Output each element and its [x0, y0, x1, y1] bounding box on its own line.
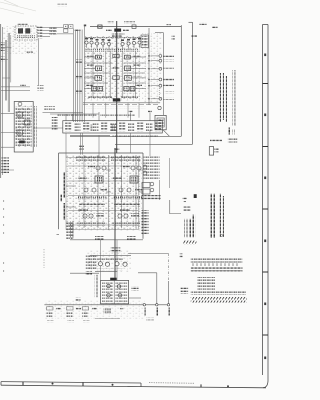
- protection innards right: [116, 282, 128, 303]
- wire run 5: [81, 30, 83, 123]
- transformer terminals: [17, 35, 35, 38]
- wire feedback horizontal 2: [115, 143, 193, 145]
- label above rail left: [108, 22, 114, 24]
- block2 top labels: [79, 146, 84, 150]
- parts list row 2: [191, 267, 243, 272]
- tiny circle mark: [221, 234, 223, 236]
- wire page-left vertical 2: [1, 27, 3, 175]
- wire from notes area down: [169, 158, 171, 188]
- band dark spots: [111, 125, 116, 132]
- hatch row under columns: [183, 241, 196, 245]
- legend box: [209, 147, 213, 156]
- wire lower band rail: [70, 134, 110, 136]
- wire mid connector: [33, 127, 63, 129]
- jack L: [64, 25, 68, 29]
- wire mid link down to rail: [138, 272, 157, 274]
- jack R: [69, 25, 73, 29]
- bias wire vertical: [148, 28, 150, 105]
- eq inner comp boxes: [17, 112, 23, 117]
- block2 inner border: [66, 158, 139, 230]
- label far top right: [212, 26, 218, 29]
- wire pair A: [8, 33, 10, 112]
- IC L4b: [98, 87, 103, 91]
- transistor row labels: [85, 37, 141, 39]
- wire top rail: [90, 25, 181, 27]
- texture right column: [142, 33, 162, 103]
- wire bottom rail of block2: [70, 239, 143, 241]
- block2 outline: [59, 153, 143, 239]
- lower left cluster: [2, 158, 10, 174]
- label above rail right: [124, 21, 135, 23]
- fuse on rail: [98, 25, 102, 29]
- bottom strip ticks: [23, 382, 201, 388]
- texture block1: [85, 36, 140, 101]
- wire lower left: [1, 169, 14, 171]
- output transistor labels: [97, 258, 123, 260]
- transistor row Q101-Q109: [85, 38, 141, 49]
- small parts at left x38: [37, 85, 44, 91]
- resistor pair on rail L: [95, 236, 104, 240]
- right extension cluster of block2: [144, 156, 160, 180]
- cap cluster 3 body: [82, 311, 88, 317]
- inner vertical wires: [93, 52, 136, 99]
- transformer primary winding: [18, 29, 22, 34]
- wire band link left 3: [1, 146, 15, 148]
- wire power rail: [44, 304, 169, 306]
- transformer T901 dashed box: [15, 26, 37, 40]
- wire stubs to ICs: [84, 25, 146, 123]
- wire faint lower: [95, 318, 120, 320]
- small text row under rail: [146, 318, 154, 320]
- wire above band: [50, 113, 99, 115]
- wire run 4: [79, 30, 81, 123]
- spine dark component: [113, 98, 121, 101]
- regulator sub-block: [114, 29, 121, 32]
- right border strip: [263, 25, 269, 388]
- wire run 3: [77, 30, 79, 123]
- IC side labels left: [87, 55, 94, 57]
- cap cluster 4 under box: [104, 308, 111, 314]
- fuse F901 marks: [1, 42, 5, 51]
- band terminals above: [129, 110, 133, 112]
- cap cluster 3 box: [82, 307, 89, 310]
- eq vertical label: [34, 106, 37, 147]
- small label left: [76, 298, 81, 303]
- wire center spine: [116, 21, 118, 153]
- rotated col d: [209, 194, 212, 239]
- driver sub-block: [141, 35, 149, 48]
- wire spine lower: [114, 148, 116, 278]
- IC L4a: [92, 87, 97, 91]
- block2 interior long wires: [68, 166, 138, 225]
- speaker terminal strip: [66, 222, 73, 240]
- block2 right half innards: [111, 156, 142, 226]
- wire feedback vertical 1: [180, 25, 182, 136]
- wires to input jacks: [37, 28, 63, 37]
- labels near mid transistors: [165, 92, 175, 94]
- tick row: [193, 263, 237, 266]
- notes rotated column 1: [220, 73, 223, 122]
- terminal vertical label: [61, 195, 64, 202]
- value labels column: [164, 55, 175, 57]
- wire block1 bottom rail 2: [83, 104, 160, 106]
- wire under rail stubs: [93, 102, 139, 117]
- sub rows block: [197, 277, 215, 290]
- block2 vertical label 2: [63, 203, 66, 220]
- wire top mid box bottom: [43, 112, 84, 114]
- wire right ext: [159, 180, 161, 200]
- IC R3: [125, 76, 132, 81]
- right strip ticks: [263, 84, 269, 336]
- right extension lower boxes: [142, 183, 150, 188]
- parts list row 1: [191, 258, 243, 262]
- part list small rows: [183, 205, 190, 207]
- bottom strip letters: [52, 383, 230, 388]
- protection transistors: [107, 284, 110, 287]
- jack GND: [64, 29, 68, 33]
- hatch bottom row: [191, 297, 247, 303]
- jack labels right: [75, 29, 81, 31]
- rotated col c: [188, 219, 191, 238]
- band box outline: [63, 121, 163, 133]
- wire drop right 1: [156, 273, 158, 305]
- transistor Q302: [105, 262, 109, 266]
- transistor Q301: [98, 262, 102, 266]
- cap cluster 2 box: [67, 307, 74, 310]
- dotted vertical far left: [43, 249, 45, 268]
- small marks under rail right: [120, 308, 123, 311]
- relay K201 box: [155, 115, 166, 129]
- eq dark blob bottom: [19, 141, 25, 144]
- wire run 2: [75, 30, 77, 123]
- wire jack bus: [57, 33, 73, 35]
- small mark under No.: [184, 201, 187, 203]
- rotated col e: [213, 194, 216, 239]
- dashed wire segment 2: [3, 262, 5, 275]
- block2 bottom extra parts: [78, 209, 88, 212]
- bottom resistor row of block1: [88, 96, 112, 98]
- rotated col c2: [192, 215, 195, 238]
- block1 assembly right border: [162, 33, 164, 116]
- L wire right of block2: [170, 200, 181, 214]
- band extra labels: [57, 114, 97, 116]
- test point label TP: [167, 24, 172, 26]
- spine cluster above output: [111, 248, 121, 253]
- block2 left half innards: [76, 156, 107, 226]
- block2 inner wires: [66, 155, 143, 230]
- IC R2: [125, 66, 131, 71]
- cap cluster 1 box: [47, 307, 54, 310]
- band drops from above: [66, 112, 150, 121]
- notes header bits: [228, 128, 230, 135]
- band component clusters: [65, 123, 71, 132]
- right extension transistors: [150, 182, 154, 186]
- wires into block2 top: [81, 133, 83, 155]
- right appendage transistors: [143, 165, 147, 169]
- block2 vertical label 1: [63, 172, 66, 198]
- left small rows: [181, 287, 188, 294]
- node dot: [84, 25, 86, 27]
- label right of box: [132, 286, 139, 291]
- top mid box labels: [44, 106, 55, 111]
- eq innards: [15, 107, 31, 148]
- cap cluster labels: [56, 308, 61, 310]
- vertical label left of rail: [70, 222, 73, 239]
- transformer label: [18, 23, 28, 25]
- AC cord cluster: [38, 27, 43, 39]
- junction dots: [148, 55, 150, 99]
- transistor under chain: [158, 106, 161, 109]
- band left text: [52, 117, 58, 131]
- sheet label No.: [183, 197, 187, 200]
- stubs band to block2: [66, 130, 150, 158]
- IC L2: [96, 66, 102, 71]
- dashed marks row: [86, 107, 146, 109]
- wire right of box: [129, 297, 141, 299]
- IC L3: [95, 76, 102, 81]
- notes rotated column 4: [233, 70, 236, 126]
- wire output top: [90, 255, 131, 257]
- center column parts: [113, 54, 119, 57]
- small cluster under transformer: [26, 50, 33, 55]
- scan streaks top-left: [0, 0, 36, 14]
- transistor Q304: [123, 262, 127, 266]
- IC side labels right: [134, 55, 141, 57]
- dense cluster under regulator: [112, 35, 122, 38]
- wire link left low: [70, 272, 99, 274]
- IC R4a: [124, 87, 129, 91]
- wire band link left 1: [1, 113, 15, 115]
- label top right: [200, 22, 207, 25]
- notes rotated column 2: [223, 73, 226, 120]
- cap cluster 2 body: [67, 311, 73, 317]
- protection innards left: [102, 282, 113, 303]
- wire to right rail: [128, 253, 169, 255]
- resistor pair on rail R: [127, 236, 136, 240]
- labels under junctions: [143, 308, 145, 316]
- faint top label: [57, 4, 67, 7]
- wire feedback hook: [189, 21, 193, 23]
- band below text row: [112, 135, 158, 138]
- rotated col f: [220, 194, 223, 238]
- texture transformer: [3, 26, 37, 54]
- notes rotated column 3: [226, 76, 229, 122]
- cap cluster 1 body: [47, 311, 53, 317]
- sub-block side labels: [106, 29, 112, 31]
- parts list header: [180, 254, 183, 259]
- rotated col b: [184, 219, 187, 238]
- spine dark part above box: [110, 278, 116, 281]
- node cluster lower-left wires: [1, 87, 30, 91]
- parts list row 3: [191, 290, 246, 295]
- sheet number 2: [194, 194, 197, 198]
- texture block2: [66, 155, 142, 231]
- dashed wire segment 1: [3, 200, 5, 240]
- terminal chain column: [151, 55, 162, 101]
- driver cluster left: [86, 255, 97, 269]
- wire run 1: [72, 28, 74, 122]
- texture eq block: [15, 105, 33, 147]
- capacitor C901: [1, 57, 5, 62]
- wire feedback vertical 2: [192, 22, 194, 144]
- texture bottom rail: [45, 300, 145, 319]
- resistor hatch row: [85, 49, 139, 52]
- diode row under rail: [112, 32, 125, 34]
- transistor Q303: [115, 262, 119, 266]
- texture output stage: [86, 250, 131, 272]
- protection divider: [113, 280, 115, 303]
- rotated col g: [223, 196, 225, 237]
- bottom border strip: [1, 382, 266, 388]
- wire block1 bottom rail: [83, 102, 160, 104]
- wire page-left vertical 1: [0, 24, 2, 178]
- wire drop right 2 dashdot: [168, 254, 170, 282]
- jack label text: [50, 27, 57, 34]
- junction circles on rail: [143, 304, 145, 306]
- wire band link left 2: [1, 132, 21, 134]
- wire right of transformer: [38, 39, 40, 86]
- resistor on rail: [132, 25, 136, 29]
- resistor R903 small: [20, 84, 26, 86]
- label mid wire: [192, 35, 198, 37]
- right strip letters: [264, 54, 266, 360]
- transformer secondary winding: [26, 29, 30, 34]
- wire above box top: [95, 270, 117, 272]
- top right small marks: [172, 36, 175, 40]
- IC R1: [125, 55, 131, 59]
- output wires: [100, 240, 117, 281]
- eq block box: [14, 102, 33, 153]
- IC R4b: [130, 87, 135, 91]
- wire quad B: [5, 40, 6, 101]
- dotted wire: [158, 86, 160, 98]
- wire feedback horizontal 1: [70, 135, 181, 137]
- protection box: [101, 280, 129, 303]
- parts on left bundle: [76, 60, 82, 63]
- wire relay diagonal: [163, 130, 170, 137]
- protection vertical label: [95, 275, 98, 297]
- single vertical mid left: [10, 35, 12, 82]
- IC L1: [96, 55, 102, 59]
- right appendage parts: [142, 210, 149, 235]
- notes title row: [210, 139, 222, 142]
- wire cross links: [1, 48, 12, 78]
